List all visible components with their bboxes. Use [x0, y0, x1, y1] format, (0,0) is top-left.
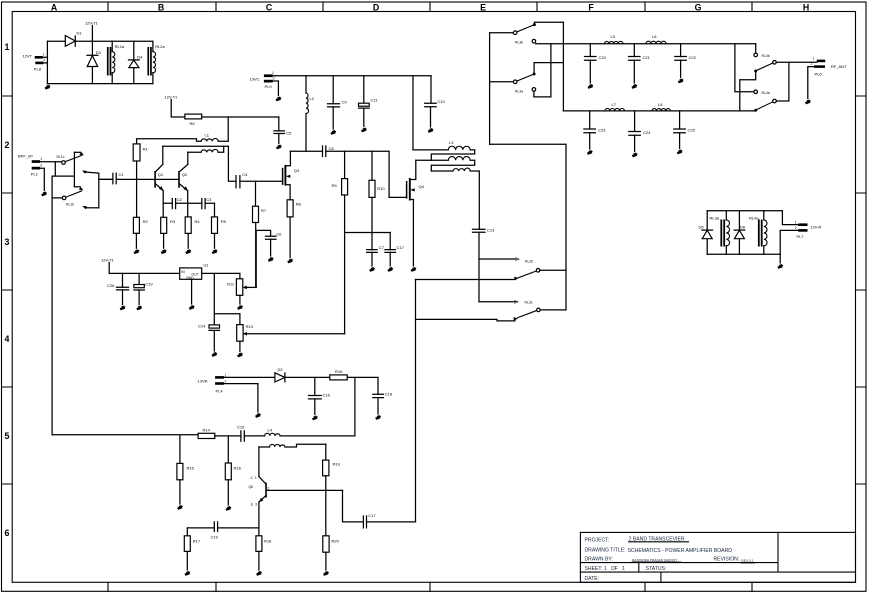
svg-text:1: 1	[5, 42, 10, 52]
wire PL8 pins to bus	[43, 57, 48, 63]
node 12V-T1 flag	[85, 21, 99, 42]
svg-text:RL4a: RL4a	[762, 91, 770, 95]
ground	[411, 268, 416, 272]
ground	[288, 259, 293, 263]
capacitor C23	[584, 111, 606, 149]
wire input line	[40, 161, 62, 163]
connector PL7 (12V-R)	[782, 211, 821, 239]
ground	[237, 353, 242, 357]
inductor L1 winding 2	[188, 146, 224, 152]
relay coil RL4a	[749, 211, 767, 255]
svg-text:C: C	[266, 3, 273, 13]
wire to C1	[99, 178, 113, 180]
svg-text:D3: D3	[96, 50, 102, 55]
wire low filter rail	[563, 110, 754, 112]
wire rail B to C4	[228, 146, 236, 181]
ground	[256, 572, 261, 576]
resistor R17	[184, 528, 201, 570]
wire arms node vertical	[415, 280, 417, 522]
wire to L1 centre	[227, 117, 229, 141]
svg-text:C9: C9	[342, 100, 348, 105]
capacitor C6	[266, 232, 283, 257]
wire long return bus	[51, 176, 53, 435]
svg-text:R2: R2	[143, 219, 149, 224]
svg-text:L3: L3	[449, 140, 454, 145]
capacitor C19a	[134, 273, 154, 304]
relay coil RL1a	[107, 41, 125, 83]
wire W2 left to Q6 collector	[258, 447, 260, 477]
svg-text:R17: R17	[193, 539, 201, 544]
wire Q2 collector riser	[180, 152, 188, 171]
resistor R1	[133, 144, 148, 180]
svg-text:1: 1	[40, 157, 42, 161]
wire top rail	[47, 40, 152, 42]
svg-text:Q4: Q4	[419, 184, 425, 189]
ground	[177, 506, 182, 510]
wire R16 output	[347, 377, 378, 394]
wire rail drop to L3 primary	[412, 76, 414, 150]
svg-text:1: 1	[272, 71, 274, 75]
capacitor C11	[359, 76, 379, 127]
svg-text:R1: R1	[143, 147, 149, 152]
svg-text:RL3b: RL3b	[515, 41, 523, 45]
wire bias lower branch	[214, 273, 240, 324]
resistor R5	[212, 203, 227, 248]
diode D1	[65, 31, 82, 47]
svg-text:12VT: 12VT	[23, 54, 33, 59]
ground	[361, 128, 366, 132]
svg-text:12V-R: 12V-R	[810, 225, 821, 230]
node 12V-T1 flag	[101, 258, 180, 274]
capacitor C8	[323, 146, 335, 157]
svg-text:G: G	[695, 3, 702, 13]
relay contact RL3b	[490, 22, 756, 44]
connector PL9 (13VC)	[250, 71, 275, 89]
svg-text:R19: R19	[333, 462, 341, 467]
svg-text:C6: C6	[276, 232, 282, 237]
svg-text:C10: C10	[438, 99, 446, 104]
wire NC bus to low filter	[562, 22, 564, 111]
svg-text:Q2: Q2	[182, 172, 188, 177]
inductor L1 winding 1	[137, 133, 229, 144]
ground	[428, 129, 433, 133]
capacitor C17a	[385, 233, 405, 267]
wire 13VC rail	[276, 75, 431, 77]
top band ticks	[108, 2, 752, 12]
wire collector rail	[163, 145, 229, 147]
svg-text:R11: R11	[227, 282, 235, 287]
capacitor C2	[163, 197, 188, 209]
svg-text:R4: R4	[195, 219, 201, 224]
ground	[134, 250, 139, 254]
relay contact RL1c	[57, 152, 99, 208]
svg-text:RF_ANT: RF_ANT	[831, 64, 847, 69]
svg-text:C26: C26	[107, 283, 115, 288]
svg-text:6: 6	[5, 528, 10, 538]
svg-text:R9: R9	[332, 183, 338, 188]
wire PL4 pin2 to ground	[224, 384, 258, 412]
ground	[632, 85, 637, 89]
svg-text:C20: C20	[599, 55, 607, 60]
capacitor C25	[674, 111, 696, 149]
svg-text:SHEET: 1 OF 1: SHEET: 1 OF 1	[585, 566, 626, 572]
svg-text:C11: C11	[371, 98, 379, 103]
relay contact RL4b	[740, 44, 817, 111]
svg-text:C3: C3	[206, 197, 212, 202]
winding 1	[413, 150, 475, 160]
capacitor C10	[425, 76, 446, 127]
capacitor C22	[675, 44, 697, 78]
svg-text:R3: R3	[170, 219, 176, 224]
capacitor C3	[188, 197, 215, 209]
svg-text:4: 4	[5, 334, 10, 344]
svg-text:REVISION:: REVISION:	[714, 557, 740, 563]
resistor R18	[256, 528, 272, 570]
connector PL4 (13VR)	[198, 374, 227, 394]
ground	[678, 79, 683, 83]
svg-text:PL4: PL4	[216, 389, 224, 394]
wire bottom rail	[47, 83, 152, 85]
node 12V-T1 flag	[165, 95, 185, 118]
resistor R10	[369, 151, 385, 197]
svg-text:D: D	[373, 3, 379, 13]
wire Q1 collector riser	[156, 146, 163, 171]
svg-text:U1: U1	[204, 263, 210, 268]
svg-text:RL1c: RL1c	[57, 155, 65, 159]
ground	[587, 151, 592, 155]
svg-text:L7: L7	[612, 102, 617, 107]
wire Q6 base to C17	[343, 490, 364, 522]
ground	[161, 250, 166, 254]
svg-text:STATUS:: STATUS:	[646, 566, 667, 572]
left band ticks	[2, 96, 13, 484]
svg-text:PL7: PL7	[797, 234, 805, 239]
wire commons vertical	[489, 33, 491, 145]
inductor L5	[605, 34, 624, 44]
svg-text:BPF_I/P: BPF_I/P	[18, 154, 33, 159]
svg-text:RL4a: RL4a	[749, 216, 759, 221]
svg-text:IN: IN	[181, 270, 185, 274]
wire R14 to C15	[215, 435, 241, 437]
wire PL4 pin1 line	[224, 376, 275, 378]
capacitor C15	[237, 425, 259, 442]
resistor R14	[198, 428, 215, 439]
ground	[312, 416, 317, 420]
inductor L7	[605, 102, 625, 111]
svg-text:C16: C16	[323, 393, 331, 398]
svg-text:2: 2	[811, 62, 813, 66]
relay coil RL3a	[710, 211, 730, 255]
svg-text:RL3a: RL3a	[710, 216, 720, 221]
resistor R15	[177, 436, 195, 504]
svg-text:Q3: Q3	[294, 168, 300, 173]
wire U1 gnd	[191, 279, 193, 304]
ground	[268, 258, 273, 262]
svg-text:C5: C5	[286, 131, 292, 136]
svg-text:L4: L4	[268, 428, 273, 433]
ground	[677, 150, 682, 154]
ground	[237, 306, 242, 310]
wire box top rail	[707, 210, 782, 212]
ground	[212, 353, 217, 357]
svg-text:E: E	[480, 3, 486, 13]
svg-text:R20: R20	[332, 539, 340, 544]
svg-text:C24: C24	[643, 130, 651, 135]
svg-text:R7: R7	[261, 208, 267, 213]
resistor R2	[133, 179, 148, 248]
svg-text:DATE:: DATE:	[585, 576, 600, 582]
winding 2	[416, 160, 475, 171]
svg-text:R16: R16	[335, 369, 343, 374]
svg-text:D4: D4	[137, 55, 143, 60]
ground	[45, 85, 50, 89]
right band ticks	[856, 96, 867, 484]
svg-text:L6: L6	[652, 34, 657, 39]
wire PL6 pin2 to ground	[808, 67, 814, 99]
resistor R19	[323, 444, 341, 535]
svg-text:C7: C7	[379, 245, 385, 250]
capacitor C9	[328, 76, 348, 129]
ground	[323, 572, 328, 576]
wire D2 to R16	[285, 376, 330, 378]
svg-text:R14: R14	[203, 428, 211, 433]
grid numbers	[5, 42, 10, 538]
svg-text:L5: L5	[611, 34, 616, 39]
capacitor C4	[236, 172, 283, 188]
svg-text:D5: D5	[699, 225, 705, 230]
resistor R9	[332, 151, 348, 195]
diode D3	[87, 41, 102, 83]
svg-text:PL9: PL9	[265, 84, 273, 89]
ground	[369, 268, 374, 272]
transistor Q4 (MOSFET)	[407, 160, 425, 266]
ground	[632, 153, 637, 157]
svg-text:PL6: PL6	[815, 72, 823, 77]
svg-text:3: 3	[5, 237, 10, 247]
svg-text:D6: D6	[740, 225, 746, 230]
svg-text:PL1: PL1	[31, 172, 39, 177]
capacitor C21	[629, 44, 651, 83]
relay contact RL3a	[490, 44, 564, 97]
ground	[805, 100, 810, 104]
transistor Q1	[155, 171, 164, 203]
svg-text:D1: D1	[77, 31, 83, 36]
ground	[276, 97, 281, 101]
wire left vertical	[46, 41, 48, 83]
capacitor C20	[585, 44, 607, 83]
svg-text:C13: C13	[487, 228, 495, 233]
wire bias node riser	[345, 195, 391, 334]
svg-text:5: 5	[5, 431, 10, 441]
svg-text:RL3c: RL3c	[525, 301, 533, 305]
svg-text:C14: C14	[198, 324, 206, 329]
svg-text:1: 1	[813, 57, 815, 61]
capacitor C5	[274, 117, 292, 144]
bottom band ticks	[108, 582, 752, 591]
svg-text:12V-T1: 12V-T1	[85, 21, 99, 26]
resistor R16	[330, 369, 347, 380]
svg-text:C21: C21	[643, 55, 651, 60]
connector PL6 (RF_ANT)	[811, 57, 848, 77]
svg-text:2: 2	[40, 163, 42, 167]
svg-text:L1: L1	[205, 133, 210, 138]
svg-text:12V-T1: 12V-T1	[101, 258, 115, 263]
svg-text:C2: C2	[177, 197, 183, 202]
svg-text:C22: C22	[689, 55, 697, 60]
transistor Q2	[179, 171, 188, 203]
svg-text:C19: C19	[211, 535, 219, 540]
svg-text:R10: R10	[377, 186, 385, 191]
wire branch to C6	[256, 230, 271, 236]
svg-text:13VR: 13VR	[198, 379, 208, 384]
inductor L8	[652, 102, 671, 111]
wire C8 to Q4 gate network	[326, 151, 407, 197]
svg-text:SCHEMATICS - POWER AMPLIFIER B: SCHEMATICS - POWER AMPLIFIER BOARD	[628, 548, 733, 554]
title block	[580, 532, 855, 582]
capacitor C16	[309, 377, 331, 414]
ground	[137, 306, 142, 310]
inductor L6	[646, 34, 666, 44]
svg-text:H: H	[803, 3, 809, 13]
wire Q3 drain rail	[290, 150, 322, 152]
resistor R8	[287, 200, 302, 258]
svg-text:C17: C17	[368, 513, 376, 518]
wire supply to L4	[354, 377, 356, 436]
svg-text:C 1: C 1	[251, 476, 257, 480]
ground	[255, 414, 260, 418]
trimpot R13	[237, 324, 345, 352]
capacitor C7	[367, 197, 385, 266]
wire PL1 pin2 to ground	[40, 168, 44, 190]
svg-text:2: 2	[43, 58, 45, 62]
ground	[120, 306, 125, 310]
svg-text:2: 2	[795, 226, 797, 230]
resistor R6	[185, 114, 202, 126]
ground	[186, 250, 191, 254]
svg-text:13VC: 13VC	[250, 77, 260, 82]
trimpot R11	[227, 273, 256, 304]
resistor R7	[253, 181, 267, 222]
svg-text:GND: GND	[186, 276, 194, 280]
svg-text:B: B	[158, 3, 164, 13]
grid letters	[51, 3, 809, 13]
relay contact RL1b	[52, 187, 99, 209]
capacitor C19	[187, 522, 218, 540]
ground	[388, 268, 393, 272]
svg-text:A: A	[51, 3, 58, 13]
inductor L4 winding 1	[259, 428, 355, 436]
diode D6	[734, 211, 746, 255]
svg-text:DRAWING TITLE:: DRAWING TITLE:	[585, 547, 626, 553]
wire U1 out rail	[202, 272, 240, 274]
svg-text:C19: C19	[145, 282, 153, 287]
svg-text:C1: C1	[119, 172, 125, 177]
svg-text:C23: C23	[598, 128, 606, 133]
svg-text:E 3: E 3	[251, 503, 257, 507]
svg-text:2: 2	[267, 487, 269, 491]
capacitor C24	[629, 111, 651, 152]
relay contact RL3c	[416, 300, 567, 321]
svg-text:L2: L2	[310, 96, 315, 101]
resistor R4	[185, 203, 200, 248]
svg-text:L8: L8	[658, 102, 663, 107]
svg-text:R5: R5	[221, 219, 227, 224]
svg-text:1: 1	[795, 220, 797, 224]
svg-text:D2: D2	[278, 367, 284, 372]
relay contact RL4a	[735, 44, 789, 112]
svg-text:F: F	[588, 3, 594, 13]
connector PL8 (12V-T)	[23, 53, 46, 72]
capacitor C1	[99, 172, 137, 184]
ground	[185, 572, 190, 576]
ground	[276, 145, 281, 149]
wire driver bus (long)	[52, 434, 198, 436]
svg-text:RL2a: RL2a	[155, 44, 165, 49]
wire PL7 pin2 to gnd rail	[780, 230, 798, 263]
ground	[41, 192, 46, 196]
wire R11 wiper riser	[255, 230, 257, 287]
wire base line	[137, 178, 179, 180]
svg-text:C25: C25	[688, 128, 696, 133]
ground	[588, 85, 593, 89]
svg-text:R8: R8	[296, 202, 302, 207]
wire relay common riser	[490, 144, 566, 310]
transistor Q3 (MOSFET)	[283, 151, 300, 200]
capacitor C13	[473, 228, 496, 302]
resistor R16b	[225, 436, 241, 505]
svg-text:C18: C18	[385, 392, 393, 397]
svg-text:2: 2	[273, 76, 275, 80]
svg-text:RL4b: RL4b	[762, 54, 770, 58]
svg-text:C15: C15	[237, 425, 245, 430]
diode D5	[699, 211, 713, 255]
svg-text:12V-T1: 12V-T1	[165, 95, 179, 100]
svg-text:PROJECT:: PROJECT:	[585, 538, 610, 544]
svg-text:R6: R6	[190, 121, 196, 126]
regulator U1	[180, 263, 210, 281]
svg-text:RL2b: RL2b	[525, 260, 533, 264]
relay coil RL2a	[147, 41, 165, 83]
ground	[189, 306, 194, 310]
wire bypass tie vertical	[73, 152, 75, 187]
inductor L4 winding 2	[259, 444, 326, 447]
wire PL9 to rail	[273, 76, 279, 96]
svg-text:RL3a: RL3a	[515, 90, 523, 94]
svg-text:C17: C17	[397, 245, 405, 250]
svg-text:R16: R16	[234, 466, 242, 471]
svg-text:Q1: Q1	[158, 172, 164, 177]
svg-text:2: 2	[5, 140, 10, 150]
ground	[226, 507, 231, 511]
diode D2	[275, 367, 285, 382]
ground	[778, 265, 783, 269]
wire R6 output	[202, 116, 279, 118]
svg-text:C8: C8	[329, 146, 335, 151]
transistor Q6	[249, 476, 343, 528]
ground	[212, 250, 217, 254]
svg-text:1: 1	[43, 53, 45, 57]
svg-text:PL8: PL8	[34, 67, 42, 72]
connector PL1 (BPF_I/P)	[18, 154, 42, 177]
svg-text:R13: R13	[246, 324, 254, 329]
resistor R3	[161, 203, 176, 248]
svg-text:RL1b: RL1b	[66, 203, 74, 207]
wire R7 bottom to bias node	[255, 223, 257, 288]
svg-text:C4: C4	[242, 172, 248, 177]
resistor R20	[323, 536, 340, 570]
capacitor C14	[198, 324, 220, 352]
svg-text:DRAWN BY:: DRAWN BY:	[585, 557, 613, 563]
